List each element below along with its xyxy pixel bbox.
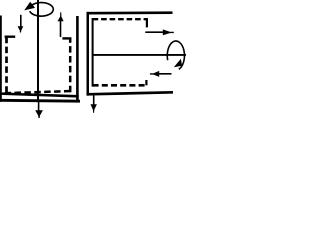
right vessel: horizontal rotation axis — [93, 54, 186, 56]
left vessel: inner dashed bottom — [5, 91, 72, 93]
left vessel: axis arrow below (stem) — [38, 102, 40, 111]
right vessel: inner top lip tick — [146, 19, 148, 27]
left vessel: inside down arrow (head) — [18, 26, 24, 32]
right vessel: inner bottom lip tick — [145, 80, 147, 85]
left vessel: inner dashed left lip tick — [5, 36, 16, 38]
left vessel: outer right wall — [76, 16, 79, 102]
right vessel: gravity down arrow (head) — [91, 104, 97, 113]
right vessel: inner left edge (solid) — [92, 18, 94, 87]
right vessel: inside left arrow (head) — [150, 71, 159, 77]
right vessel: inside right arrow (head) — [163, 29, 174, 35]
right vessel: gravity down arrow (stem) — [93, 96, 95, 106]
left vessel: axis arrow below (head) — [35, 110, 43, 118]
right vessel: outer bottom line — [87, 92, 174, 94]
left vessel: outer left wall — [0, 16, 2, 102]
left vessel: inside down arrow (stem) — [20, 15, 22, 27]
left vessel: inner dashed right lip tick — [62, 37, 71, 39]
left vessel: inside up arrow (stem) — [60, 21, 62, 37]
left vessel: rotation arrowhead — [24, 2, 35, 11]
right vessel: inner dashed bottom line — [93, 84, 148, 87]
right vessel: rotation ellipse arc — [167, 41, 184, 69]
right vessel: inside left arrow (stem) — [155, 73, 172, 75]
left vessel: base line — [0, 99, 80, 103]
left vessel: rotation ellipse arc — [30, 3, 54, 17]
left vessel: rotation axis — [37, 0, 39, 102]
left vessel: inner dashed right wall — [69, 38, 72, 92]
right vessel: inside right arrow (stem) — [145, 31, 164, 33]
right vessel: outer top line — [87, 11, 173, 14]
right vessel: inner dashed top line — [93, 18, 148, 20]
right vessel: rotation arrowhead — [174, 59, 182, 67]
left vessel: inner dashed left wall — [5, 37, 8, 92]
left vessel: outer bottom line — [0, 94, 79, 97]
left vessel: inside up arrow (head) — [58, 12, 64, 21]
right vessel: outer left wall — [87, 12, 90, 96]
